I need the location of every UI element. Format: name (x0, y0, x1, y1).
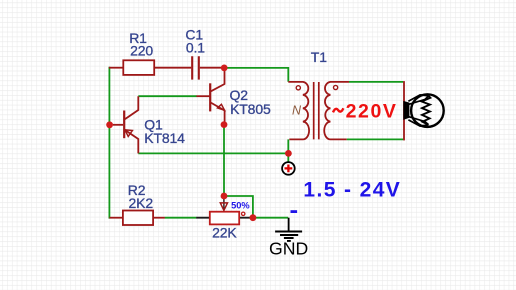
potentiometer wiper arrow (223, 198, 225, 211)
wire wiper dot to pot right terminal (224, 196, 253, 218)
wire secondary top to lamp (349, 81, 403, 83)
wire C1 to node (200, 67, 224, 69)
wire lamp vertical (403, 81, 405, 140)
svg-text:220: 220 (130, 42, 153, 58)
svg-text:50%: 50% (231, 201, 250, 211)
transformer T1 secondary winding (324, 82, 349, 139)
resistor R1 (123, 60, 154, 75)
transformer secondary polarity dot (334, 85, 338, 89)
wire (109, 67, 403, 219)
wire R1 to C1 (154, 67, 191, 69)
transformer primary polarity dot (296, 86, 300, 90)
wire Q1 collector to Q2 base (138, 95, 196, 97)
svg-text:22K: 22K (212, 224, 237, 240)
junction node pot right (250, 214, 257, 221)
svg-text:KT805: KT805 (230, 101, 271, 117)
junction node Q1 base (106, 121, 113, 128)
svg-text:N: N (292, 104, 302, 118)
svg-text:0.1: 0.1 (186, 39, 205, 55)
wire Q1 emitter rail to +V node (138, 152, 288, 154)
transformer core (314, 82, 319, 139)
wire R1 left lead (109, 67, 123, 69)
lamp base (403, 101, 409, 120)
junction node C1/Q2 collector (221, 65, 228, 72)
junction node +V (285, 150, 292, 157)
capacitor C1 (192, 56, 199, 79)
resistor R2 (123, 211, 153, 226)
ground (288, 218, 290, 232)
wire R2 right lead (153, 217, 165, 219)
terminal +V circle (282, 162, 295, 175)
potentiometer marker circle (242, 212, 245, 215)
wire Q2 emitter vertical to wiper (223, 125, 225, 196)
svg-text:KT814: KT814 (144, 130, 185, 146)
potentiometer 22K (210, 212, 239, 225)
svg-text:220V: 220V (346, 101, 398, 123)
wire pot right to GND (249, 217, 288, 219)
wire left vertical bus (108, 67, 110, 219)
lamp bulb (411, 94, 444, 127)
wire black pot lead stubs (196, 217, 249, 219)
svg-text:T1: T1 (311, 49, 327, 65)
svg-text:1.5 - 24V: 1.5 - 24V (303, 179, 401, 202)
label ~ tilde (333, 108, 343, 112)
transistor Q1 (113, 96, 138, 153)
wire secondary bottom to lamp (347, 138, 404, 140)
transistor Q2 (196, 68, 224, 125)
wire R2 to pot left (165, 217, 197, 219)
lamp filament (408, 95, 430, 126)
svg-text:GND: GND (269, 239, 308, 259)
transformer T1 primary winding (288, 82, 309, 139)
wire R2 left lead (109, 217, 123, 219)
wire transformer bottom to +V node (287, 139, 289, 162)
junction node Q2 emitter (221, 121, 228, 128)
terminal minus (291, 210, 298, 213)
junction node wiper (221, 193, 228, 200)
svg-text:2K2: 2K2 (129, 195, 154, 211)
wire C1 node to transformer top (226, 68, 288, 82)
